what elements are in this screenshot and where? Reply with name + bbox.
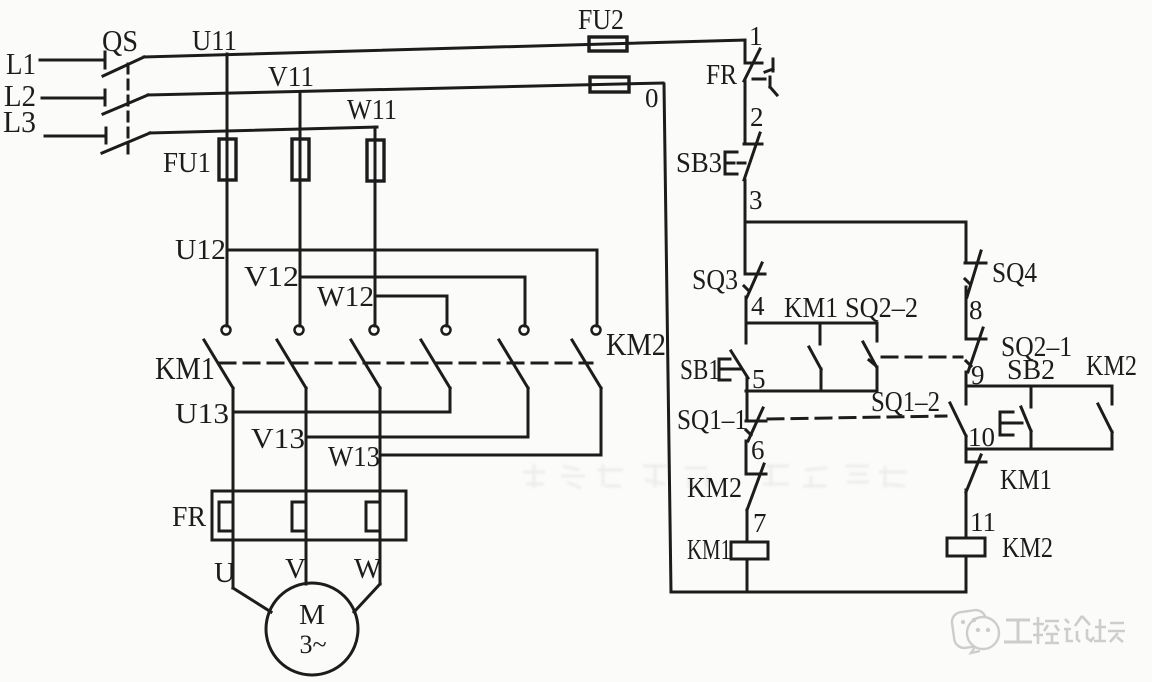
- FR contact fixed bar: [745, 62, 762, 65]
- SB3 contact blade: [744, 133, 760, 180]
- contact KM1 pole2 blade: [277, 340, 306, 388]
- contact KM1 pole1 blade: [204, 340, 233, 388]
- left rail segment node4: [745, 297, 748, 343]
- wire W12: [375, 296, 447, 326]
- svg-text:9: 9: [971, 360, 985, 390]
- right rail top segment: [965, 222, 968, 261]
- contact KM2 pole2 terminal: [520, 326, 529, 335]
- contact KM2 pole1 blade: [421, 340, 450, 388]
- wire W13: [380, 454, 601, 457]
- watermark logo bubble2: [967, 617, 999, 649]
- FR heater element W: [366, 502, 380, 531]
- SQ4 contact fixed bar: [965, 262, 986, 265]
- FR contact blade: [744, 49, 760, 81]
- SQ2-2 contact stub top: [876, 323, 879, 341]
- contact KM2 pole3 blade: [572, 340, 601, 388]
- switch QS pole2 blade: [103, 95, 148, 114]
- wire V column lower: [305, 388, 308, 584]
- FR thermal actuator symbol: [753, 59, 777, 95]
- watermark text gong: [1004, 620, 1032, 642]
- svg-text:2: 2: [750, 102, 764, 132]
- wire 0 rail vertical: [664, 84, 671, 592]
- SQ1-1 blade barb: [746, 430, 751, 435]
- svg-text:KM1: KM1: [155, 350, 215, 386]
- watermark logo bubble1: [951, 609, 990, 649]
- left rail segment node6: [745, 441, 748, 474]
- SQ2-1 contact fixed bar: [966, 338, 986, 341]
- right rail below coil KM2: [965, 556, 968, 592]
- svg-text:KM1: KM1: [1000, 465, 1052, 496]
- coil KM2: [947, 538, 985, 556]
- faint bleedthrough marks: [523, 464, 545, 488]
- watermark text lun: [1064, 616, 1094, 642]
- svg-text:W13: W13: [328, 441, 380, 473]
- svg-text:V12: V12: [244, 261, 299, 293]
- KM1-KM2 linkage dashed: [220, 362, 592, 365]
- wire KM2 pole2 lower: [527, 388, 530, 437]
- KM1 aux contact blade: [809, 347, 821, 369]
- fuse FU2 lower: [590, 77, 629, 92]
- KM1 interlock blade: [966, 455, 981, 492]
- wire L2: [42, 97, 104, 100]
- wire U11: [144, 40, 745, 57]
- SQ2 linkage dashed: [882, 356, 962, 359]
- SQ4 blade barb: [965, 279, 970, 284]
- SB1 pushbutton actuator E: [719, 359, 741, 380]
- SQ2-1 blade barb: [966, 361, 971, 366]
- svg-text:7: 7: [753, 508, 767, 538]
- svg-text:QS: QS: [102, 23, 138, 58]
- svg-text:SQ3: SQ3: [692, 265, 738, 296]
- switch QS pole3 fixed contact: [105, 128, 108, 143]
- contact KM1 pole3 blade: [351, 340, 380, 388]
- svg-text:SQ1–2: SQ1–2: [871, 387, 940, 418]
- wire KM2 pole1 lower: [449, 388, 452, 412]
- left rail segment node3: [744, 180, 747, 274]
- FR heater element V: [292, 502, 306, 531]
- SQ1 linkage dashed: [768, 416, 946, 419]
- svg-text:0: 0: [645, 83, 659, 113]
- svg-text:L3: L3: [3, 104, 36, 139]
- svg-text:M: M: [299, 599, 325, 631]
- fuse FU1 phase U: [219, 139, 236, 180]
- KM1 interlock fixed bar: [966, 461, 986, 464]
- KM2 interlock blade: [747, 464, 764, 510]
- wire W column upper: [374, 127, 377, 326]
- SQ3 blade barb: [744, 286, 749, 291]
- KM1 aux contact stub bottom: [820, 369, 823, 391]
- FR heater element U: [219, 502, 233, 531]
- SB2 contact stub bottom: [1030, 431, 1033, 449]
- right rail segment node11: [965, 490, 968, 538]
- SB3 pushbutton actuator E: [725, 152, 745, 174]
- svg-text:3: 3: [749, 185, 763, 215]
- contact KM1 pole1 terminal: [222, 326, 231, 335]
- thermal relay FR box: [212, 491, 406, 540]
- wire U13: [233, 411, 450, 414]
- SB1 contact blade: [731, 351, 748, 378]
- wire node5 branch bottom: [746, 390, 877, 393]
- svg-text:KM1: KM1: [784, 293, 838, 324]
- svg-text:5: 5: [752, 364, 766, 394]
- SB2 pushbutton actuator E: [1000, 412, 1022, 435]
- wire V column upper: [299, 92, 302, 326]
- KM1 aux contact stub top: [819, 323, 822, 344]
- wire node3 horizontal: [745, 221, 966, 224]
- svg-text:SB2: SB2: [1007, 355, 1055, 386]
- contact KM1 pole2 terminal: [295, 326, 304, 335]
- wire motor lead U: [233, 588, 271, 612]
- wire L1: [40, 59, 104, 62]
- coil KM1: [731, 542, 768, 559]
- svg-text:FR: FR: [172, 501, 207, 533]
- wire KM2 pole3 lower: [600, 388, 603, 455]
- fuse FU2 upper: [589, 37, 627, 51]
- KM2 selfhold contact blade: [1098, 404, 1112, 432]
- svg-text:W12: W12: [317, 281, 374, 313]
- svg-text:V: V: [285, 553, 306, 585]
- svg-text:SB3: SB3: [676, 148, 722, 179]
- svg-text:11: 11: [970, 507, 996, 537]
- svg-text:L1: L1: [6, 46, 36, 81]
- SQ2-2 contact stub bottom: [876, 367, 879, 391]
- svg-text:V13: V13: [251, 423, 305, 455]
- SQ2-1 contact blade: [968, 328, 983, 372]
- wire V12: [300, 277, 525, 326]
- KM2 interlock fixed bar: [746, 473, 766, 476]
- left rail segment node7: [746, 510, 749, 542]
- contact KM2 pole2 blade: [499, 340, 528, 388]
- wire U column lower: [232, 388, 235, 588]
- left rail top segment node1: [744, 40, 747, 63]
- svg-text:8: 8: [969, 295, 983, 325]
- SB3 contact fixed bar: [744, 143, 762, 146]
- fuse FU1 phase V: [292, 139, 309, 180]
- svg-text:SQ2–2: SQ2–2: [845, 293, 918, 324]
- switch QS pole3 blade: [102, 133, 150, 153]
- KM2 selfhold contact stub top: [1111, 386, 1114, 404]
- svg-text:KM2: KM2: [687, 473, 742, 504]
- wire V11: [148, 83, 663, 95]
- svg-text:U: U: [214, 557, 235, 589]
- wire node10 branch bottom: [966, 448, 1112, 451]
- svg-text:KM2: KM2: [1086, 351, 1137, 382]
- SQ2-2 blade barb: [869, 360, 875, 365]
- svg-text:FU1: FU1: [163, 147, 211, 179]
- wire V13: [306, 436, 528, 439]
- svg-text:W: W: [354, 553, 382, 585]
- SQ3 contact fixed bar: [745, 273, 765, 276]
- contact KM2 pole1 terminal: [442, 326, 451, 335]
- svg-text:3~: 3~: [299, 630, 326, 659]
- svg-text:U12: U12: [175, 234, 226, 266]
- svg-text:SQ1–1: SQ1–1: [677, 405, 747, 436]
- svg-text:W11: W11: [347, 94, 397, 126]
- wire node4 branch top: [746, 322, 877, 325]
- svg-text:10: 10: [968, 422, 995, 452]
- svg-text:KM2: KM2: [1002, 533, 1053, 564]
- watermark text tan: [1094, 619, 1125, 642]
- svg-text:U11: U11: [192, 25, 237, 57]
- switch QS pole1 blade: [103, 57, 144, 76]
- contact KM1 pole3 terminal: [370, 326, 379, 335]
- right rail segment node8: [965, 287, 968, 339]
- left rail below coil KM1: [746, 559, 749, 592]
- SQ1-2 contact blade: [950, 403, 966, 436]
- KM2 selfhold contact stub bottom: [1111, 432, 1114, 449]
- svg-text:FU2: FU2: [578, 4, 624, 36]
- wire U column upper: [226, 54, 229, 326]
- svg-text:SB1: SB1: [680, 355, 720, 386]
- right rail segment node10: [965, 436, 968, 462]
- svg-text:KM2: KM2: [606, 326, 666, 362]
- motor M circle: [266, 583, 358, 675]
- svg-text:SQ4: SQ4: [992, 258, 1037, 289]
- right rail segment node9: [965, 372, 968, 404]
- wire W11: [150, 127, 377, 133]
- SQ2-2 contact blade: [863, 342, 876, 366]
- switch QS pole1 fixed contact: [104, 52, 107, 68]
- SB2 contact stub top: [1030, 386, 1033, 407]
- watermark text kong: [1033, 617, 1059, 644]
- SQ4 contact blade: [967, 251, 981, 297]
- left rail segment node2: [744, 81, 747, 144]
- QS linkage dashed: [127, 64, 130, 157]
- SQ1-1 contact fixed bar: [746, 420, 766, 423]
- wire L3: [45, 135, 105, 138]
- wire motor lead W: [354, 584, 380, 612]
- svg-text:KM1: KM1: [687, 535, 731, 566]
- contact KM2 pole3 terminal: [592, 326, 601, 335]
- fuse FU1 phase W: [367, 140, 384, 181]
- svg-text:U13: U13: [175, 398, 229, 430]
- svg-text:1: 1: [749, 21, 763, 51]
- left rail segment node5: [746, 378, 749, 421]
- wire bottom return: [671, 591, 966, 594]
- svg-text:FR: FR: [706, 60, 737, 91]
- SB2 contact blade: [1021, 407, 1031, 431]
- wire U12: [227, 250, 597, 326]
- switch QS pole2 fixed contact: [104, 90, 107, 105]
- svg-text:V11: V11: [268, 61, 314, 93]
- svg-text:6: 6: [751, 435, 765, 465]
- SQ1-1 contact blade: [748, 408, 763, 441]
- wire node9 branch top: [966, 385, 1112, 388]
- wire W column lower: [379, 388, 382, 584]
- watermark logo eyes: [961, 620, 965, 624]
- SQ3 contact blade: [747, 263, 762, 297]
- svg-text:4: 4: [751, 291, 765, 321]
